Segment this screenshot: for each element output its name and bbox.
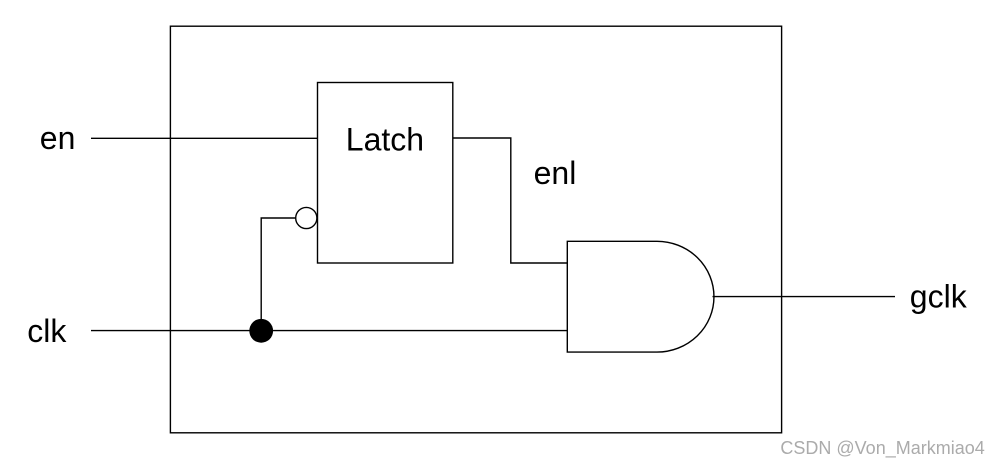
latch U1 body <box>318 83 453 264</box>
wire latch output to enl corner <box>453 138 568 263</box>
module boundary box <box>170 26 781 433</box>
svg-text:en: en <box>40 120 76 156</box>
wire en input <box>91 137 318 139</box>
svg-text:gclk: gclk <box>910 279 968 315</box>
svg-text:enl: enl <box>534 155 577 191</box>
svg-text:Latch: Latch <box>346 121 424 157</box>
wire clk input <box>91 330 567 332</box>
junction dot on clk <box>249 319 273 343</box>
wire clk branch to latch gate bubble <box>261 218 295 331</box>
svg-text:CSDN @Von_Markmiao4: CSDN @Von_Markmiao4 <box>780 438 984 459</box>
svg-text:clk: clk <box>27 313 67 349</box>
inverter bubble on latch clock input <box>296 207 317 228</box>
wire gclk output <box>713 296 896 298</box>
AND gate U2 <box>567 241 714 352</box>
